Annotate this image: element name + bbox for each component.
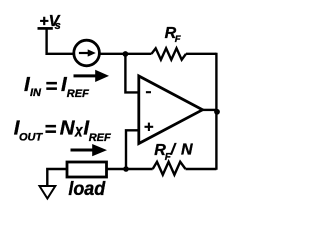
svg-text:IN: IN: [30, 87, 42, 99]
svg-text:F: F: [175, 34, 181, 45]
svg-text:N: N: [181, 142, 193, 159]
svg-text:=: =: [45, 75, 57, 98]
svg-text:load: load: [68, 179, 105, 200]
svg-text:REF: REF: [67, 88, 89, 100]
svg-text:N: N: [60, 116, 76, 139]
svg-text:s: s: [55, 20, 61, 32]
svg-text:REF: REF: [89, 132, 111, 144]
svg-text:OUT: OUT: [19, 131, 44, 143]
svg-text:=: =: [44, 118, 56, 141]
svg-text:x: x: [74, 122, 83, 141]
